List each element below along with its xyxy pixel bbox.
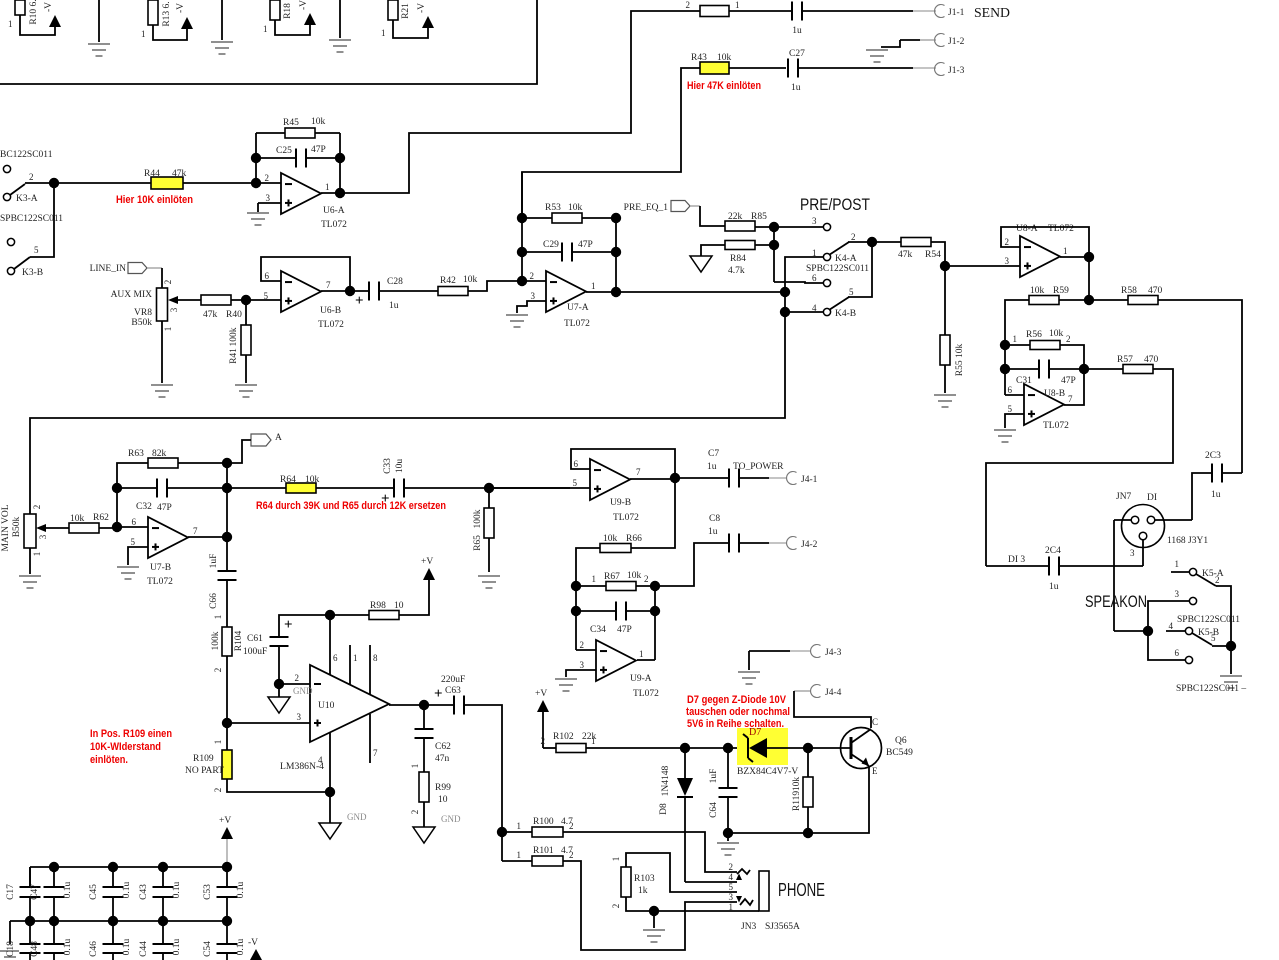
svg-text:7: 7	[1068, 394, 1073, 404]
capacitor C31 47P	[1016, 360, 1076, 387]
junction	[251, 178, 261, 188]
wire	[749, 650, 790, 652]
resistor R18	[263, 0, 293, 34]
wire +V rail	[30, 866, 227, 868]
svg-text:2: 2	[644, 574, 649, 584]
svg-text:1: 1	[639, 649, 644, 659]
wire (R43 feed)	[522, 68, 700, 218]
svg-text:K3-B: K3-B	[22, 268, 43, 278]
svg-text:1: 1	[163, 327, 173, 332]
wire out	[637, 659, 655, 661]
svg-text:1: 1	[213, 740, 223, 745]
svg-text:R98: R98	[370, 601, 386, 611]
svg-text:1: 1	[1063, 246, 1068, 256]
wire	[727, 833, 729, 841]
svg-text:1uF: 1uF	[209, 554, 219, 569]
connector J1-3	[935, 62, 965, 76]
svg-text:K3-A: K3-A	[16, 194, 38, 204]
svg-text:GND: GND	[293, 686, 313, 696]
svg-text:47P: 47P	[157, 503, 172, 513]
svg-text:J4-1: J4-1	[801, 475, 818, 485]
junction	[769, 222, 779, 232]
svg-text:J1-2: J1-2	[948, 37, 965, 47]
svg-text:R21: R21	[401, 3, 411, 19]
wire	[29, 921, 31, 944]
svg-text:2: 2	[32, 505, 42, 510]
svg-text:-V: -V	[248, 938, 258, 948]
resistor R64 10k (highlighted)	[280, 475, 320, 493]
wire	[1084, 368, 1123, 370]
junction	[325, 610, 335, 620]
wire	[227, 487, 286, 489]
svg-text:C66: C66	[209, 593, 219, 609]
wire	[393, 20, 428, 38]
svg-text:6: 6	[1008, 385, 1013, 395]
wire	[226, 921, 228, 944]
svg-text:1: 1	[325, 182, 330, 192]
wire	[1212, 645, 1231, 647]
junction	[517, 213, 527, 223]
wire	[53, 867, 55, 887]
wire	[279, 615, 330, 637]
capacitor C17 0.1u	[6, 884, 41, 900]
svg-text:10k: 10k	[792, 777, 802, 792]
resistor R55 10k	[940, 335, 965, 376]
wire pin3	[258, 202, 281, 204]
svg-text:U6-A: U6-A	[323, 206, 345, 216]
connector J4-4	[811, 685, 842, 698]
svg-text:10u: 10u	[395, 459, 405, 474]
capacitor C54 0.1u	[203, 938, 246, 956]
junction	[571, 606, 581, 616]
svg-text:2: 2	[611, 904, 621, 909]
svg-text:7: 7	[326, 280, 331, 290]
wire	[626, 853, 737, 892]
svg-text:10k: 10k	[603, 534, 618, 544]
svg-text:2: 2	[29, 172, 34, 182]
svg-text:TL072: TL072	[613, 513, 639, 523]
power -V arrow	[248, 938, 262, 960]
switch K5-A	[1171, 559, 1224, 586]
phone jack JN3 SJ3565A	[729, 862, 800, 932]
svg-text:+V: +V	[421, 557, 433, 567]
svg-text:R53: R53	[545, 203, 561, 213]
svg-text:Hier 47K einlöten: Hier 47K einlöten	[687, 80, 761, 92]
junction	[484, 483, 494, 493]
wire	[213, 723, 227, 750]
svg-text:3: 3	[1005, 256, 1010, 266]
svg-text:C17: C17	[6, 884, 16, 900]
power -V arrow (R13)	[181, 17, 193, 29]
wire pin3	[566, 670, 596, 677]
wire	[502, 831, 532, 833]
svg-text:2: 2	[686, 0, 691, 10]
svg-text:10: 10	[438, 795, 448, 805]
wire	[774, 282, 823, 283]
svg-text:U8-B: U8-B	[1044, 389, 1065, 399]
ground (open triangle)	[690, 256, 712, 272]
wire	[986, 565, 1049, 567]
wire pin4 U10	[318, 733, 330, 792]
junction	[112, 483, 122, 493]
capacitor C33 10u (polarized)	[381, 458, 405, 507]
switch K5-B	[1166, 621, 1219, 645]
svg-text:47P: 47P	[1061, 376, 1076, 386]
svg-text:82k: 82k	[152, 449, 167, 459]
junction	[158, 862, 168, 872]
wire	[1004, 345, 1006, 395]
svg-text:R67: R67	[604, 572, 620, 582]
junction	[325, 787, 335, 797]
svg-text:1: 1	[517, 821, 522, 831]
wire	[773, 227, 775, 282]
svg-text:C28: C28	[387, 277, 403, 287]
svg-text:JN7: JN7	[1116, 492, 1132, 502]
svg-text:D8: D8	[659, 803, 669, 815]
svg-text:DI 3: DI 3	[1008, 555, 1025, 565]
junction	[158, 916, 168, 926]
svg-text:1: 1	[410, 764, 420, 769]
svg-text:C53: C53	[203, 884, 213, 900]
svg-text:U10: U10	[318, 701, 335, 711]
svg-text:47P: 47P	[617, 625, 632, 635]
svg-text:C34: C34	[590, 625, 606, 635]
junction	[723, 743, 733, 753]
svg-text:6: 6	[812, 273, 817, 283]
wire	[655, 543, 729, 586]
svg-text:0.1u: 0.1u	[63, 938, 73, 955]
wire	[501, 832, 503, 861]
svg-text:3: 3	[531, 291, 536, 301]
svg-text:1: 1	[213, 615, 223, 620]
svg-text:D7 gegen Z-Diode 10V: D7 gegen Z-Diode 10V	[687, 694, 787, 706]
wire	[1216, 586, 1231, 646]
wire	[162, 867, 164, 887]
svg-text:U8-A: U8-A	[1016, 224, 1038, 234]
svg-text:1u: 1u	[389, 301, 399, 311]
ground	[0, 951, 19, 957]
svg-text:6: 6	[574, 459, 579, 469]
wire pin5	[1005, 414, 1024, 428]
wire	[245, 300, 247, 325]
svg-text:1: 1	[8, 19, 13, 29]
svg-text:3: 3	[297, 712, 302, 722]
wire	[729, 10, 791, 12]
svg-text:1: 1	[381, 28, 386, 38]
wire	[410, 802, 424, 827]
resistor R43 10k (highlighted)	[691, 53, 732, 74]
svg-text:Q6: Q6	[895, 736, 907, 746]
svg-text:R84: R84	[730, 254, 746, 264]
capacitor C28 1u (polarized)	[355, 277, 403, 311]
power +V arrow	[535, 689, 549, 712]
wire	[626, 897, 759, 911]
ground	[247, 212, 269, 214]
svg-text:SPEAKON: SPEAKON	[1085, 592, 1147, 611]
svg-text:5: 5	[131, 537, 136, 547]
resistor R99 10	[419, 772, 451, 805]
svg-text:470: 470	[1144, 355, 1159, 365]
svg-text:2: 2	[163, 280, 173, 285]
svg-text:10k: 10k	[305, 475, 320, 485]
resistor R53 10k	[545, 203, 583, 223]
svg-text:8: 8	[373, 653, 378, 663]
wire	[30, 186, 54, 257]
svg-text:1168 J3Y1: 1168 J3Y1	[1167, 536, 1208, 546]
wire	[488, 538, 490, 572]
wire	[848, 241, 872, 243]
wire	[488, 488, 490, 508]
svg-text:+: +	[355, 293, 364, 309]
svg-text:1: 1	[353, 653, 358, 663]
capacitor C8 1u	[708, 514, 739, 553]
svg-text:1: 1	[592, 574, 597, 584]
svg-text:47k: 47k	[898, 250, 913, 260]
junction	[108, 916, 118, 926]
wire pin2 U10	[279, 683, 310, 685]
svg-text:R10 6.: R10 6.	[29, 0, 39, 25]
power -V arrow (R18)	[304, 13, 316, 25]
switch K3-A	[3, 165, 37, 204]
svg-text:-V: -V	[176, 3, 186, 13]
svg-text:TL072: TL072	[321, 220, 347, 230]
op-amp U9-A	[580, 640, 660, 699]
junction	[335, 153, 345, 163]
svg-text:B50k: B50k	[12, 516, 22, 537]
ground	[211, 0, 233, 54]
svg-text:SEND: SEND	[974, 5, 1010, 20]
junction	[650, 606, 660, 616]
resistor R103 1k	[611, 857, 655, 909]
svg-text:1u: 1u	[1049, 582, 1059, 592]
svg-text:U7-B: U7-B	[150, 563, 171, 573]
svg-text:C64: C64	[709, 802, 719, 818]
svg-text:6: 6	[333, 653, 338, 663]
svg-text:-V: -V	[299, 0, 309, 10]
svg-text:2: 2	[729, 862, 734, 872]
svg-text:LINE_IN: LINE_IN	[90, 264, 127, 274]
svg-text:1uF: 1uF	[709, 769, 719, 784]
switch contact 6 (K5)	[1175, 648, 1193, 664]
svg-text:R45: R45	[283, 118, 299, 128]
wire to main vol	[30, 312, 785, 514]
capacitor C47 0.1u	[30, 881, 73, 899]
connector J4-2	[787, 537, 818, 551]
capacitor C32 47P	[136, 479, 172, 514]
capacitor C27 1u	[788, 49, 805, 93]
wire	[727, 748, 729, 788]
wire out	[321, 192, 340, 194]
resistor R65 100k (highlighted)	[473, 508, 494, 551]
resistor R41 100k	[229, 325, 251, 364]
wire pin6	[117, 526, 148, 528]
svg-text:C54: C54	[203, 941, 213, 957]
wire	[423, 705, 425, 729]
power -V arrow (R10)	[49, 15, 61, 27]
svg-text:einlöten.: einlöten.	[90, 754, 128, 766]
ground (open triangle)	[413, 814, 461, 843]
svg-text:2: 2	[851, 232, 856, 242]
op-amp U8-A	[1005, 236, 1068, 277]
wire	[404, 487, 570, 489]
svg-text:7: 7	[193, 526, 198, 536]
svg-text:R99: R99	[435, 783, 451, 793]
resistor R67 10k	[592, 571, 649, 591]
resistor R59 10k	[1029, 286, 1069, 305]
wire	[183, 182, 251, 184]
svg-text:1u: 1u	[1211, 490, 1221, 500]
junction	[517, 247, 527, 257]
svg-text:R66: R66	[626, 534, 642, 544]
svg-text:47P: 47P	[311, 145, 326, 155]
wire pin3 U10	[227, 722, 310, 724]
wire pin2	[256, 182, 281, 184]
wire	[161, 321, 163, 383]
svg-text:22k: 22k	[728, 212, 743, 222]
svg-text:In Pos. R109 einen: In Pos. R109 einen	[90, 728, 172, 740]
svg-text:3: 3	[266, 193, 271, 203]
svg-text:1: 1	[32, 552, 42, 557]
svg-text:4: 4	[1169, 621, 1174, 631]
svg-text:R54: R54	[925, 250, 941, 260]
svg-text:C29: C29	[543, 240, 559, 250]
svg-text:K4-A: K4-A	[835, 254, 857, 264]
wire pin8 U10 stub	[370, 645, 378, 695]
diode D8 1N4148	[659, 765, 693, 814]
svg-text:1: 1	[591, 736, 596, 746]
potentiometer VR8 B50k	[111, 280, 201, 332]
svg-text:BZX84C4V7-V: BZX84C4V7-V	[737, 767, 798, 777]
wire out	[630, 478, 675, 480]
junction	[222, 458, 232, 468]
ground	[643, 929, 665, 931]
svg-text:470: 470	[1148, 286, 1163, 296]
svg-text:C18: C18	[6, 941, 16, 957]
svg-text:R64: R64	[280, 475, 296, 485]
zener diode D7 BZX84C4V7-V (highlighted)	[737, 727, 798, 777]
wire	[727, 797, 729, 833]
wire pin3	[517, 301, 546, 313]
capacitor 2C4 1u	[1045, 546, 1061, 592]
resistor R66 10k	[600, 534, 642, 553]
svg-text:C61: C61	[247, 634, 263, 644]
wire out U10	[389, 704, 454, 706]
svg-text:1u: 1u	[708, 527, 718, 537]
ground (open triangle)	[268, 697, 290, 713]
ground	[235, 384, 257, 386]
wire	[278, 684, 280, 697]
junction	[49, 178, 59, 188]
junction	[112, 522, 122, 532]
ground	[88, 0, 110, 56]
wire pin7 U10 stub	[370, 714, 378, 763]
svg-text:10k: 10k	[568, 203, 583, 213]
wire out	[188, 536, 227, 538]
svg-text:7: 7	[373, 748, 378, 758]
svg-text:R109: R109	[193, 754, 214, 764]
resistor R54 47k	[898, 238, 941, 261]
junction	[108, 862, 118, 872]
capacitor C25 47P	[276, 145, 326, 168]
svg-text:C33: C33	[383, 458, 393, 474]
svg-text:0.1u: 0.1u	[172, 938, 182, 955]
wire	[226, 463, 228, 537]
svg-text:TO_POWER: TO_POWER	[733, 462, 784, 472]
svg-text:1u: 1u	[792, 26, 802, 36]
connector J4-1	[787, 472, 818, 486]
wire	[785, 311, 823, 313]
net flag A	[251, 433, 282, 446]
svg-text:BC549: BC549	[886, 748, 913, 758]
resistor R45 10k	[283, 117, 326, 138]
capacitor 2C3 1u	[1205, 451, 1222, 500]
svg-text:220uF: 220uF	[441, 675, 465, 685]
junction	[274, 679, 284, 689]
svg-text:R44: R44	[144, 169, 160, 179]
wire pin6 feedback	[261, 257, 350, 291]
svg-text:JN3: JN3	[741, 922, 757, 932]
svg-text:DI: DI	[1147, 493, 1157, 503]
junction	[241, 295, 251, 305]
junction	[940, 261, 950, 271]
wire	[675, 477, 729, 479]
svg-text:1u: 1u	[791, 83, 801, 93]
wire	[231, 299, 281, 301]
capacitor C62 47n	[415, 729, 452, 764]
svg-text:J4-2: J4-2	[801, 540, 818, 550]
junction	[222, 862, 232, 872]
junction	[419, 700, 429, 710]
junction	[649, 906, 659, 916]
wire	[1114, 630, 1148, 632]
op-amp U8-B	[1008, 384, 1074, 431]
capacitor C43 0.1u	[139, 881, 182, 899]
wire	[147, 267, 162, 269]
svg-text:6: 6	[1175, 648, 1180, 658]
connector J4-3	[811, 645, 842, 659]
svg-text:C32: C32	[136, 502, 152, 512]
svg-text:47k: 47k	[203, 310, 218, 320]
svg-text:10K-WIderstand: 10K-WIderstand	[90, 741, 161, 753]
svg-text:C44: C44	[139, 941, 149, 957]
wire	[1113, 520, 1115, 631]
wire	[1005, 368, 1039, 370]
svg-text:2: 2	[569, 850, 574, 860]
ground	[717, 842, 739, 844]
svg-text:R59: R59	[1053, 286, 1069, 296]
wire	[410, 738, 424, 772]
svg-text:R102: R102	[553, 732, 574, 742]
wire	[944, 266, 946, 335]
resistor R101 4.7	[517, 846, 574, 866]
op-amp U10 LM386N-4	[280, 665, 389, 772]
svg-text:C46: C46	[89, 941, 99, 957]
ground	[866, 49, 888, 51]
transistor Q6 BC549	[841, 717, 914, 776]
ground	[555, 678, 577, 680]
connector J1-2	[935, 33, 965, 47]
power +V arrow	[421, 557, 435, 580]
svg-text:3: 3	[1130, 548, 1135, 558]
svg-text:U7-A: U7-A	[567, 303, 589, 313]
svg-text:2: 2	[530, 271, 535, 281]
op-amp U9-B	[573, 459, 642, 523]
wire	[468, 281, 522, 291]
svg-text:tauschen oder nochmal: tauschen oder nochmal	[686, 706, 790, 718]
junction	[723, 828, 733, 838]
svg-text:J4-4: J4-4	[825, 688, 842, 698]
junction	[611, 287, 621, 297]
